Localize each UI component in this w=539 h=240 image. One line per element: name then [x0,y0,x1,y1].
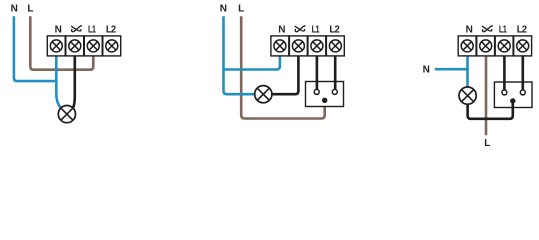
wire L supply brown: down, right, up into terminal L1 (diagram 1) [30,16,93,69]
terminal screw symbols (diagram 1) [50,40,118,52]
terminal label switched-live symbol (diagram 3) [482,25,492,32]
lamp (diagram 2) [255,86,272,103]
wire from terminal L1 into switch (diagram 2) [316,56,319,90]
wire black switched live from arrow terminal to lamp (diagram 2) [272,56,299,94]
terminal screw symbols (diagram 3) [461,40,529,52]
wire black switched live from arrow terminal down to lamp (diagram 1) [73,56,75,108]
switch contact L2 (diagram 3) [520,90,525,95]
switch contact L1 (diagram 2) [314,89,319,94]
wire from terminal L2 into switch (diagram 3) [521,56,524,90]
svg-text:N: N [278,25,285,36]
svg-text:L1: L1 [312,24,320,35]
terminal block (diagram 1) [47,36,120,56]
wire black from lamp to switch common (diagram 3) [468,101,513,119]
wire blue from terminal N down to lamp (diagram 3) [466,56,469,87]
wire L brown from arrow terminal down to L (diagram 3) [485,56,488,135]
wire from terminal L2 into switch (diagram 2) [334,56,337,90]
wire blue branch to terminal N (diagram 2) [222,56,280,70]
terminal screw symbols (diagram 2) [274,40,342,52]
switch box (diagram 2) [306,82,344,107]
svg-text:N: N [11,4,18,15]
svg-text:L: L [27,4,33,15]
wire black inside switch from common dot down (diagram 3) [511,101,514,108]
svg-text:L2: L2 [329,24,340,35]
svg-text:N: N [55,25,62,36]
svg-text:L2: L2 [106,24,117,35]
switch contact L2 (diagram 2) [332,89,337,94]
svg-text:N: N [220,4,227,15]
switch common pole (diagram 3) [510,98,515,103]
svg-text:L1: L1 [499,24,507,35]
svg-text:L: L [238,4,244,15]
lamp (diagram 1) [58,106,75,123]
switch contact L1 (diagram 3) [502,90,507,95]
lamp (diagram 3) [459,87,476,104]
svg-text:L1: L1 [88,24,96,35]
wire blue from terminal N down to lamp (diagram 1) [56,56,61,108]
wire from terminal L1 into switch (diagram 3) [503,56,506,90]
wire N supply blue horizontal feed (diagram 3) [435,68,469,71]
svg-text:L2: L2 [517,24,528,35]
terminal label switched-live symbol (diagram 1) [72,25,82,32]
wire N supply blue: down then right to junction (diagram 1) [14,16,58,81]
svg-text:N: N [423,65,430,76]
terminal block (diagram 2) [271,36,344,56]
terminal label switched-live symbol (diagram 2) [295,25,305,32]
wire N supply blue: down then right into lamp (diagram 2) [224,16,256,94]
switch box (diagram 3) [494,82,532,108]
svg-text:L: L [484,138,490,149]
terminal block (diagram 3) [458,36,531,56]
svg-text:N: N [466,25,473,36]
switch common pole (diagram 2) [322,98,327,103]
wire L supply brown: down, right, up into switch common (diagram 2) [241,16,325,118]
